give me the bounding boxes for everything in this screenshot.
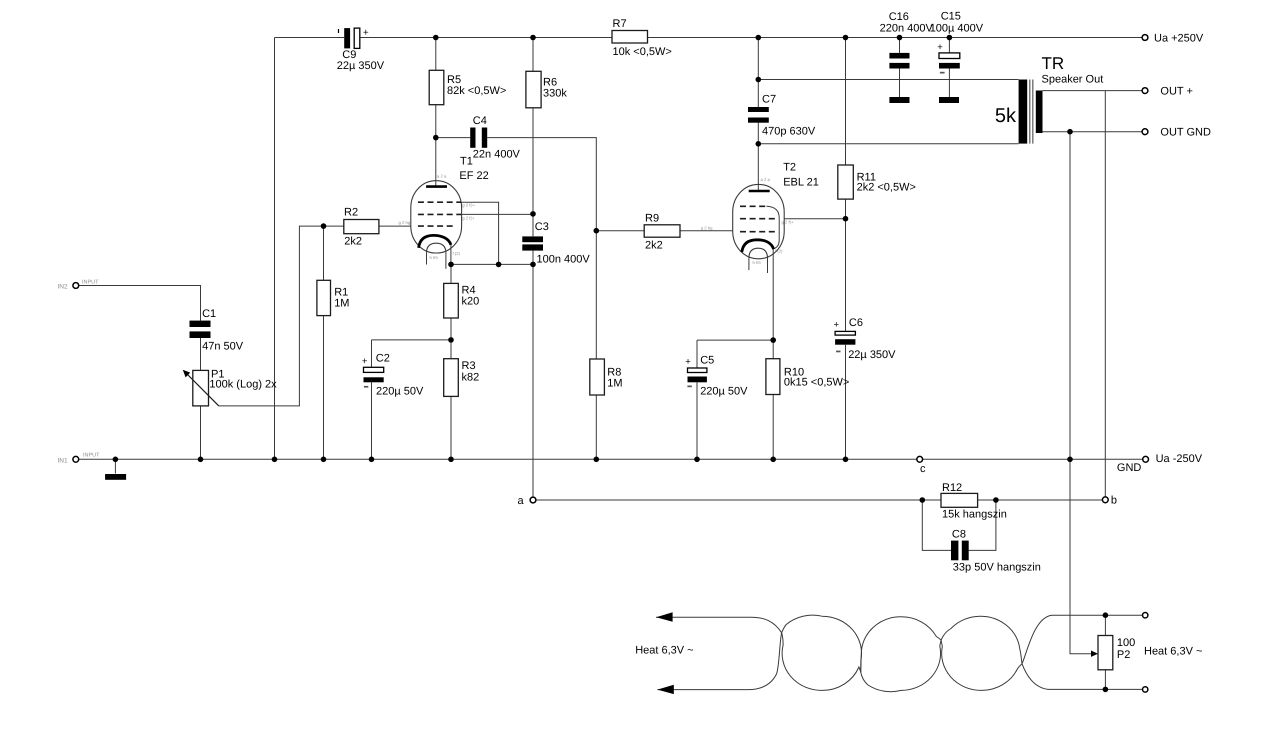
potentiometer P1 100k Log 2x [183, 369, 277, 406]
svg-text:2k2 <0,5W>: 2k2 <0,5W> [857, 182, 916, 194]
svg-text:c: c [920, 463, 926, 475]
svg-text:47n 50V: 47n 50V [202, 341, 244, 353]
svg-text:100k (Log) 2x: 100k (Log) 2x [209, 379, 277, 391]
terminal IN1 [58, 453, 101, 465]
svg-text:f (2): f (2) [453, 251, 461, 256]
wire T2 cathode lead down [772, 249, 774, 340]
capacitor C6 22u 350V [834, 317, 897, 361]
heater arrow bottom left [657, 685, 673, 694]
svg-text:EF 22: EF 22 [459, 170, 488, 182]
capacitor C7 470p 630V [748, 94, 816, 138]
svg-text:2k2: 2k2 [645, 240, 663, 252]
wire heater bottom right row [1048, 688, 1142, 690]
wire C8 right loop [969, 500, 996, 550]
wire R9 left lead [596, 230, 644, 232]
svg-text:IN2: IN2 [58, 284, 69, 291]
svg-text:R12: R12 [942, 482, 962, 494]
wire C4 right lead down to R9 node [487, 138, 596, 231]
svg-text:g 2 hg: g 2 hg [701, 226, 713, 231]
svg-text:a: a [518, 495, 525, 507]
node dot R6 top rail [530, 35, 536, 41]
svg-text:22n 400V: 22n 400V [473, 149, 521, 161]
svg-text:Ua +250V: Ua +250V [1154, 33, 1204, 45]
svg-text:100n 400V: 100n 400V [537, 254, 591, 266]
wire R5 top lead [435, 38, 437, 71]
wire IN2 input row [79, 286, 201, 321]
node dot heater bottom P2 [1103, 687, 1109, 693]
svg-text:OUT +: OUT + [1160, 86, 1193, 98]
svg-text:b: b [1111, 495, 1117, 507]
svg-text:g 2 f(+: g 2 f(+ [462, 216, 475, 221]
resistor R11 2k2 [838, 165, 916, 199]
wire C2 top lead [371, 340, 373, 367]
svg-text:330k: 330k [543, 88, 567, 100]
svg-text:T1: T1 [460, 156, 473, 168]
resistor R4 k20 [444, 283, 480, 318]
svg-text:Heat 6,3V ~: Heat 6,3V ~ [1144, 646, 1202, 658]
terminal heater bottom right [1143, 687, 1148, 692]
wire R10 top lead [772, 340, 774, 359]
wire C16 top lead [899, 38, 901, 53]
svg-text:C8: C8 [952, 529, 966, 541]
node dot ground rail C5 [694, 457, 700, 463]
svg-text:g 2 f(+-: g 2 f(+- [462, 203, 476, 208]
wire P1 bottom to ground rail [200, 406, 202, 459]
terminal IN2 [58, 280, 100, 291]
svg-text:TR: TR [1042, 54, 1065, 73]
node dot ground rail R8 [594, 457, 600, 463]
wire R4 top lead [450, 264, 452, 283]
wire T1 g2 to R6 column [461, 213, 533, 215]
wire R1 top lead [323, 226, 325, 280]
svg-text:22µ 350V: 22µ 350V [848, 349, 896, 361]
node dot ground rail left column [272, 457, 278, 463]
terminal Ua +250V [1142, 33, 1204, 45]
wire C15 bottom lead to stub bar [948, 69, 950, 98]
wire ground rail right of c terminal [923, 458, 1143, 460]
node dot T2 g2 R11 junction [843, 216, 849, 222]
wire R6 bottom to C3 [532, 108, 534, 237]
capacitor C4 22n 400V [470, 115, 520, 161]
terminal node a [518, 495, 536, 507]
svg-text:INPUT: INPUT [82, 280, 99, 286]
capacitor C2 220u 50V [362, 353, 424, 398]
wire transformer primary bottom row [758, 143, 1018, 145]
capacitor C16 220n 400V [880, 11, 934, 103]
capacitor C9 22u 350V [337, 28, 385, 73]
wire R11 bottom to C6 [845, 199, 847, 331]
svg-text:C3: C3 [535, 221, 549, 233]
tube T2 EBL21 [701, 162, 819, 274]
node dot R2 R1 junction [321, 223, 327, 229]
wire C2 top row [372, 339, 452, 341]
wire left vertical C9 minus to ground rail [274, 38, 276, 460]
svg-text:a 2 a: a 2 a [761, 177, 771, 182]
wire C8 left loop [922, 500, 951, 550]
svg-text:C15: C15 [941, 11, 961, 23]
node dot T2 cathode C5 R10 junction [770, 337, 776, 343]
wire node column OUT GND to ground rail to P2 wiper [1070, 132, 1092, 654]
node dot T1 g2 junction [530, 211, 536, 217]
node dot R9 R8 junction [594, 228, 600, 234]
wire C7 bottom to T2 anode [757, 123, 759, 191]
wire C16 bottom lead to stub bar [899, 69, 901, 98]
node dot ground rail P2 column [1067, 457, 1073, 463]
node dot ground rail R1 [321, 457, 327, 463]
node dot ground rail R10 [770, 457, 776, 463]
svg-text:5k: 5k [995, 105, 1017, 127]
svg-text:C2: C2 [376, 353, 390, 365]
wire R3 bottom lead [450, 396, 452, 459]
terminal node c [917, 456, 926, 475]
wire b column from OUT+ to b terminal [1104, 91, 1106, 497]
node dot ground rail P1 [198, 457, 204, 463]
svg-text:IN1: IN1 [58, 457, 69, 464]
svg-text:100µ 400V: 100µ 400V [930, 23, 984, 35]
svg-text:220n 400V: 220n 400V [880, 23, 934, 35]
wire R9 right lead to T2 grid [680, 230, 733, 232]
svg-text:g 2 f(+: g 2 f(+ [782, 220, 795, 225]
wire R5 bottom to T1 anode [435, 105, 437, 186]
node dot ground rail C6 [843, 457, 849, 463]
resistor R8 1M [590, 359, 623, 395]
capacitor C15 100u 400V [930, 11, 984, 104]
resistor R2 2k2 [344, 207, 379, 248]
capacitor C5 220u 50V [685, 355, 748, 398]
wire P2 top lead [1104, 615, 1106, 635]
wire C6 bottom to ground rail [845, 345, 847, 460]
svg-text:C7: C7 [762, 94, 776, 106]
svg-text:R3: R3 [462, 360, 476, 372]
svg-text:Heat 6,3V ~: Heat 6,3V ~ [635, 645, 693, 657]
node dot C7 bottom junction [756, 141, 762, 147]
svg-text:k82: k82 [462, 372, 480, 384]
node dot T2 anode column top rail [756, 35, 762, 41]
node dot ground rail input stub [113, 457, 119, 463]
svg-text:15k hangszin: 15k hangszin [942, 509, 1007, 521]
node dot C16 top rail [897, 35, 903, 41]
svg-text:+: + [834, 320, 840, 331]
resistor R12 15k [941, 482, 1007, 521]
svg-text:2k2: 2k2 [344, 236, 362, 248]
resistor R5 82k [429, 70, 506, 104]
svg-text:GND: GND [1117, 462, 1142, 474]
svg-text:C4: C4 [473, 115, 487, 127]
svg-text:P2: P2 [1117, 649, 1130, 661]
wire R11 top lead from rail [845, 38, 847, 166]
node dot C3 bottom junction [530, 262, 536, 268]
svg-text:a 2 a: a 2 a [437, 174, 447, 179]
svg-text:10k <0,5W>: 10k <0,5W> [613, 46, 672, 58]
svg-text:g 2 hg: g 2 hg [399, 220, 411, 225]
svg-text:0k15 <0,5W>: 0k15 <0,5W> [784, 377, 849, 389]
wire OUT+ row [1043, 90, 1142, 92]
heater twisted pair wire A top [656, 615, 1052, 690]
wire cathode node row [451, 263, 533, 265]
svg-text:T2: T2 [783, 162, 796, 174]
svg-text:R7: R7 [613, 18, 627, 30]
wire R1 bottom lead [323, 316, 325, 460]
node dot R12 right junction [993, 497, 999, 503]
wire T2 g2 to R11 column [784, 218, 845, 220]
svg-text:+: + [937, 42, 943, 53]
svg-text:Ua -250V: Ua -250V [1156, 453, 1203, 465]
wire R8 bottom lead [595, 395, 597, 459]
svg-text:C1: C1 [202, 308, 216, 320]
wire T1 g3 to cathode node [461, 202, 498, 264]
node dot heater top P2 [1103, 612, 1109, 618]
heater twisted pair wire B bottom [657, 615, 1048, 692]
svg-text:C16: C16 [889, 11, 909, 23]
resistor R9 2k2 [644, 213, 680, 252]
heater arrow top left [656, 612, 672, 621]
capacitor C1 47n 50V [190, 308, 244, 353]
terminal OUT+ [1142, 86, 1193, 98]
wire transformer primary top row [758, 79, 1018, 81]
node dot ground rail C2 [369, 457, 375, 463]
terminal OUT GND [1142, 127, 1211, 139]
wire C5 bottom lead [696, 382, 698, 459]
wire ground rail left of c terminal [79, 458, 917, 460]
svg-text:C6: C6 [849, 317, 863, 329]
wire node a to R12 [536, 499, 941, 501]
wire C2 bottom lead [371, 382, 373, 459]
svg-text:Speaker Out: Speaker Out [1042, 74, 1104, 86]
wire C5 top lead [696, 340, 698, 368]
svg-text:+: + [685, 357, 691, 368]
node dot R5 top rail [433, 35, 439, 41]
terminal heater top right [1143, 613, 1148, 618]
node dot C15 top rail [947, 35, 953, 41]
wire P1 wiper row [219, 226, 344, 406]
wire top +250V rail left segment [275, 37, 345, 39]
svg-text:1M: 1M [334, 298, 349, 310]
capacitor C8 33p 50V [951, 529, 1041, 574]
svg-text:1M: 1M [607, 378, 622, 390]
node dot C7 top junction [756, 77, 762, 83]
wire C5 row [697, 339, 773, 341]
svg-text:22µ 350V: 22µ 350V [337, 60, 385, 72]
wire C3 bottom to node a [532, 251, 534, 497]
svg-text:f (2): f (2) [775, 249, 783, 254]
resistor R3 k82 [444, 359, 480, 397]
svg-text:EBL 21: EBL 21 [783, 177, 819, 189]
wire T2 anode column from rail through C7 node [757, 38, 759, 108]
wire R12 to node b [978, 499, 1103, 501]
transformer TR 5k Speaker Out [995, 54, 1103, 144]
ground symbol at input [105, 459, 126, 480]
wire R6 top lead [532, 38, 534, 72]
node dot R11 top rail [843, 35, 849, 41]
capacitor C3 100n 400V [522, 221, 590, 266]
wire C4 left lead [436, 137, 470, 139]
wire T1 cathode lead [450, 245, 452, 265]
wire R4 to R3 [450, 318, 452, 359]
svg-text:100: 100 [1117, 637, 1135, 649]
svg-text:82k <0,5W>: 82k <0,5W> [447, 85, 506, 97]
node dot R12 left junction [920, 497, 926, 503]
wire R2 right lead to T1 grid [379, 225, 411, 227]
svg-text:R2: R2 [344, 207, 358, 219]
terminal Ua -250V GND [1117, 453, 1203, 474]
wire top +250V rail C9 to R7 [360, 37, 612, 39]
wire C1 to P1 [200, 338, 202, 370]
wire R10 bottom lead [772, 395, 774, 460]
node dot ground rail R3 [448, 457, 454, 463]
svg-text:h h5: h h5 [430, 255, 439, 260]
svg-text:OUT GND: OUT GND [1160, 127, 1211, 139]
resistor R7 10k [612, 18, 672, 58]
svg-text:33p 50V hangszin: 33p 50V hangszin [953, 562, 1041, 574]
svg-text:k20: k20 [462, 296, 480, 308]
svg-text:INPUT: INPUT [83, 453, 100, 459]
svg-text:C5: C5 [700, 355, 714, 367]
node dot g3 cathode junction [496, 262, 502, 268]
tube T1 EF22 [399, 156, 489, 269]
svg-text:h h5: h h5 [753, 260, 762, 265]
node dot R4 R3 C2 junction [448, 337, 454, 343]
svg-text:470p 630V: 470p 630V [762, 126, 816, 138]
resistor R6 330k [526, 71, 567, 108]
svg-text:R9: R9 [645, 213, 659, 225]
wire R8 top lead [595, 231, 597, 359]
wire heater top right row [1052, 614, 1142, 616]
resistor R1 1M [317, 280, 350, 315]
node dot OUT GND junction [1067, 129, 1073, 135]
svg-text:+: + [363, 28, 369, 39]
svg-text:220µ 50V: 220µ 50V [376, 386, 424, 398]
svg-text:220µ 50V: 220µ 50V [700, 386, 748, 398]
svg-text:+: + [362, 356, 368, 367]
node dot C4 anode junction [433, 135, 439, 141]
terminal node b [1102, 495, 1117, 507]
wire P2 bottom lead [1104, 670, 1106, 690]
potentiometer P2 100 [1091, 636, 1135, 670]
node dot T1 cathode junction [448, 262, 454, 268]
wire C15 top lead [948, 38, 950, 53]
resistor R10 0k15 [766, 359, 849, 395]
wire top +250V rail R7 to Ua+250V terminal [648, 37, 1142, 39]
wire OUT GND row [1043, 131, 1142, 133]
